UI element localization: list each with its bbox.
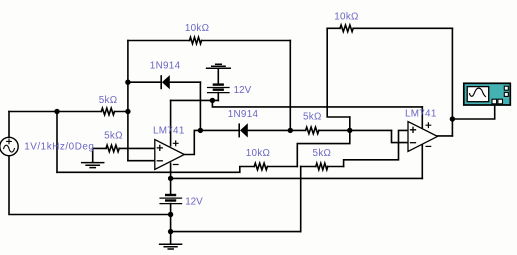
wire vertical x=452.4 output/feedback [451, 28, 453, 136]
diode D2 1N914 cathode bar [238, 124, 240, 136]
node dot battery B1 (212.4,100.4) [210, 98, 215, 103]
wire top input row y=111.5 [9, 111, 128, 113]
op-amp U2 V+ label [426, 123, 431, 128]
wire vertical x=290.3 feedback to diode row [289, 41, 291, 131]
svg-text:12V: 12V [185, 196, 203, 207]
op-amp U2 LM741 triangle [408, 122, 438, 152]
wire to oscilloscope [452, 106, 494, 120]
node dot output (452.4,119) [450, 116, 455, 121]
oscilloscope XSC1 [464, 83, 511, 105]
svg-text:5kΩ: 5kΩ [99, 95, 118, 106]
svg-text:LM741: LM741 [405, 109, 437, 120]
wire vertical x=57 down from dot [56, 112, 58, 173]
wire step to U2 inverting input [392, 130, 409, 142]
op-amp U1 LM741 triangle [155, 140, 185, 170]
wire source top vertical [8, 112, 10, 138]
op-amp U2 input - symbol [411, 142, 416, 144]
wire bottom row y=172.3 from source column [57, 167, 297, 173]
wire feedback row y=40.5 [128, 40, 290, 42]
wire U2 noninverting stub [344, 130, 408, 166]
node dot input row (127.9,111.5) [125, 109, 130, 114]
wire branch down from B1 dot [212, 100, 422, 107]
diode D1 1N914 cathode bar [160, 76, 162, 88]
op-amp U1 input + symbol [157, 145, 162, 150]
op-amp U1 V- label [173, 164, 178, 166]
wire feedback2 upper step [327, 28, 350, 117]
svg-text:1N914: 1N914 [228, 109, 259, 120]
node dot source/top-row junction [54, 109, 59, 114]
resistor R3 5kΩ zigzag [106, 145, 119, 152]
battery B1 12V plates [208, 85, 229, 93]
svg-text:LM741: LM741 [153, 125, 185, 136]
wire R6 row y=166.5 [301, 166, 344, 168]
ground G1 symbol [82, 163, 104, 168]
diode D1 1N914 triangle [163, 76, 170, 88]
wire negative rail y=178.4 [171, 177, 423, 179]
source V1 circle [0, 137, 18, 155]
svg-text:5kΩ: 5kΩ [303, 112, 322, 123]
resistor R5 10kΩ zigzag [254, 163, 267, 170]
op-amp U2 V- label [426, 145, 431, 147]
node dot B source return (170.6,214.5) [168, 212, 173, 217]
resistor R6 5kΩ zigzag [316, 163, 328, 170]
battery B2 top stem [170, 178, 172, 195]
wire diode D2 row y=130.4 [200, 129, 391, 131]
node dot U1 output (200.4,130.4) [198, 128, 203, 133]
ground G2 symbol [160, 244, 182, 249]
resistor R7 10kΩ zigzag [340, 25, 353, 32]
wire U1 output step [184, 130, 200, 154]
svg-text:1N914: 1N914 [150, 61, 181, 72]
wire bottom row y=231.6 [171, 231, 301, 233]
op-amp U1 V- pin wire [170, 163, 172, 178]
ground G1 stem [92, 148, 94, 162]
svg-text:5kΩ: 5kΩ [104, 131, 123, 142]
battery B1 top stem [217, 68, 219, 84]
svg-text:5kΩ: 5kΩ [313, 148, 332, 159]
svg-text:12V: 12V [234, 85, 252, 96]
node dot C bottom row (170.6,231.6) [168, 229, 173, 234]
ground G3 flipped above battery B1 [207, 64, 231, 68]
wire summing node down-step to R5 [297, 117, 350, 167]
svg-text:10kΩ: 10kΩ [334, 11, 359, 22]
wire inverting input stub y=160.7 [128, 160, 155, 162]
resistor R4 5kΩ zigzag [306, 127, 319, 134]
source V1 plus symbol [7, 139, 12, 144]
wire noninverting leg y=148.4 with R3 [93, 147, 155, 149]
op-amp U2 V- pin wire [421, 145, 423, 178]
node dot diode branch (127.9,82.2) [125, 80, 130, 85]
svg-text:1V/1kHz/0Deg: 1V/1kHz/0Deg [24, 142, 94, 153]
op-amp U1 V+ pin wire [170, 100, 172, 145]
source V1 sine symbol [4, 145, 15, 152]
op-amp U1 V+ label [173, 141, 178, 146]
node dot feedback/diode row (290.3,130.4) [288, 128, 293, 133]
wire feedback2 row y=28.3 [327, 27, 452, 29]
resistor R2 10kΩ zigzag [190, 37, 202, 44]
wire vertical x=127.9 (inverting node column) [127, 41, 129, 161]
svg-text:10kΩ: 10kΩ [246, 148, 271, 159]
battery B2 12V plates [160, 195, 181, 204]
battery B2 bottom stem [170, 204, 172, 245]
wire vertical x=200.4 (D1 to output node) [199, 82, 201, 130]
op-amp U2 V+ pin wire [421, 107, 423, 128]
battery B1 bottom stem [217, 93, 219, 101]
node dot A V- rail (170.6,178.4) [168, 176, 173, 181]
wire source bottom return [9, 156, 171, 215]
resistor R1 5kΩ zigzag [101, 108, 114, 115]
wire U2 output [438, 135, 453, 137]
diode D2 1N914 triangle [241, 124, 248, 136]
wire V+ rail y=100.4 [171, 99, 219, 101]
wire vertical x=300.7 down to bottom row [300, 167, 302, 232]
node dot summing (349.8,130.4) [347, 128, 352, 133]
svg-text:10kΩ: 10kΩ [185, 23, 210, 34]
op-amp U1 input - symbol [157, 160, 162, 162]
op-amp U2 input + symbol [411, 127, 416, 132]
wire diode D1 row y=82.2 [128, 81, 200, 83]
